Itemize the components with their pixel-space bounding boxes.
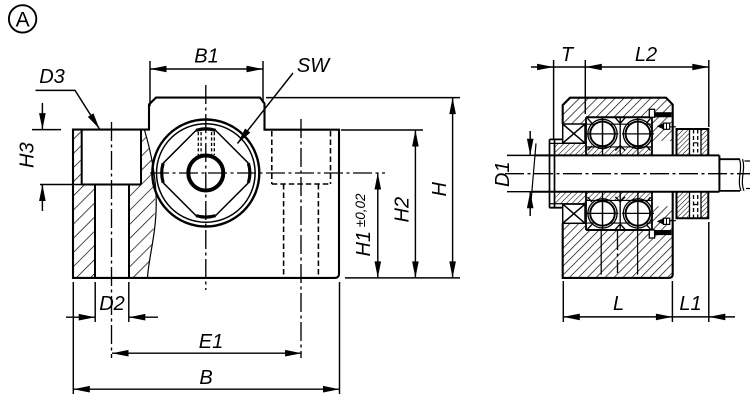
- svg-text:L1: L1: [679, 293, 701, 315]
- svg-text:L2: L2: [635, 44, 657, 66]
- svg-text:H3: H3: [17, 142, 39, 168]
- svg-text:H: H: [429, 182, 451, 197]
- svg-text:A: A: [16, 9, 30, 32]
- svg-text:T: T: [561, 44, 575, 66]
- svg-text:H2: H2: [392, 197, 414, 223]
- svg-text:SW: SW: [297, 55, 331, 77]
- svg-text:B1: B1: [194, 46, 218, 68]
- svg-text:D1: D1: [492, 161, 514, 187]
- svg-text:D3: D3: [39, 66, 65, 88]
- svg-text:L: L: [613, 293, 624, 315]
- svg-text:E1: E1: [199, 331, 223, 353]
- svg-text:D2: D2: [99, 293, 125, 315]
- svg-text:B: B: [199, 367, 212, 389]
